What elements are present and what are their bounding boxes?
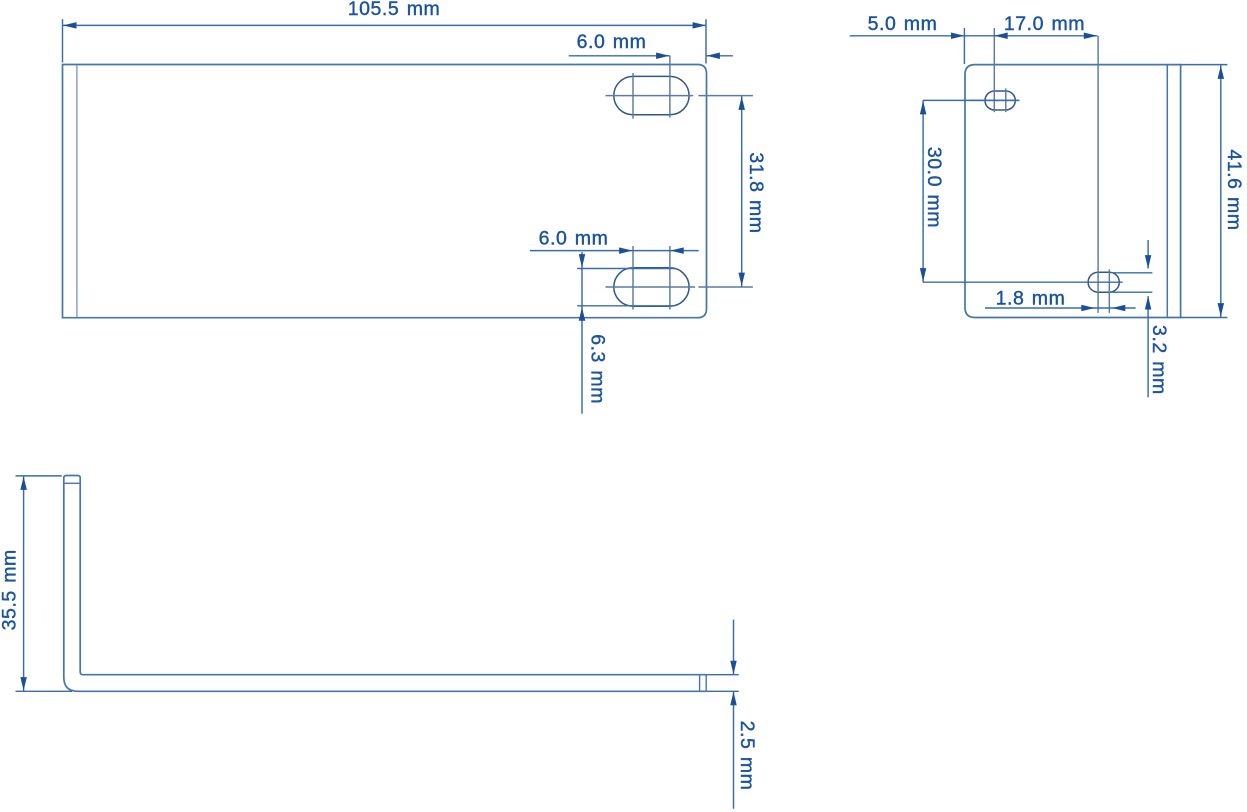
svg-text:5.0 mm: 5.0 mm [868,13,938,35]
svg-text:30.0 mm: 30.0 mm [923,147,945,228]
svg-text:41.6 mm: 41.6 mm [1223,149,1245,230]
svg-text:17.0 mm: 17.0 mm [1004,13,1085,35]
svg-text:6.3 mm: 6.3 mm [586,334,608,404]
svg-text:2.5 mm: 2.5 mm [736,721,758,791]
svg-text:3.2 mm: 3.2 mm [1148,325,1170,395]
svg-text:35.5 mm: 35.5 mm [0,549,21,630]
svg-text:31.8 mm: 31.8 mm [745,152,767,233]
svg-text:6.0 mm: 6.0 mm [539,228,609,250]
svg-text:1.8 mm: 1.8 mm [996,288,1066,310]
svg-text:6.0 mm: 6.0 mm [577,31,647,53]
svg-text:105.5 mm: 105.5 mm [348,0,441,20]
